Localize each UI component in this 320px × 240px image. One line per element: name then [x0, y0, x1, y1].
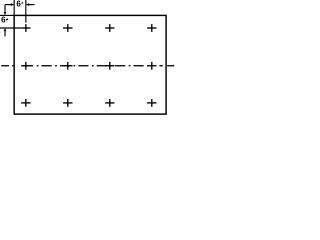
- svg-text:6: 6: [16, 0, 21, 9]
- svg-text:6: 6: [1, 16, 6, 25]
